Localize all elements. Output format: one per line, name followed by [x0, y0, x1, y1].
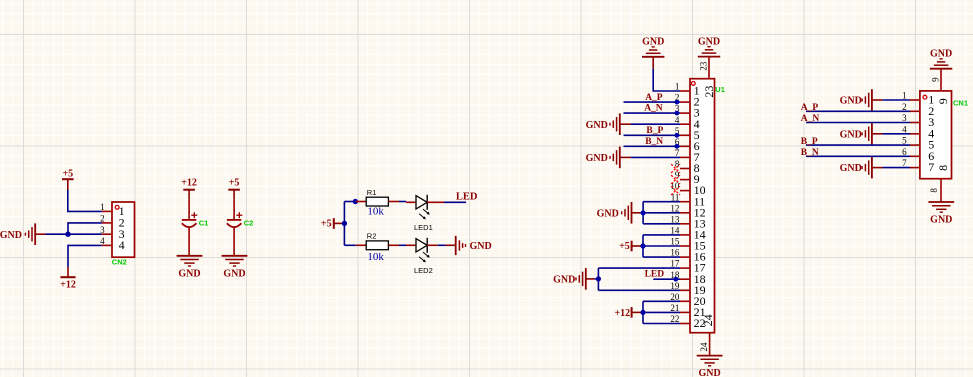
label C2 — [244, 219, 254, 228]
ground GND (CN1 pin4) — [840, 123, 883, 145]
svg-text:24: 24 — [701, 314, 715, 326]
svg-text:+5: +5 — [321, 219, 332, 230]
ground GND (C1) — [177, 256, 203, 279]
ground GND (U1 pin7) — [586, 147, 631, 169]
wire +12 group vertical — [642, 301, 644, 323]
CN1 pin 4 number (outside) — [902, 124, 907, 134]
CN1 pin 9 number (outside) — [930, 77, 940, 82]
U1 pin 19 stub — [680, 289, 690, 291]
svg-text:7: 7 — [675, 148, 680, 158]
U1 pin 17 number (inside) — [694, 261, 706, 275]
CN1 pin 7 stub — [910, 167, 920, 169]
svg-text:20: 20 — [670, 292, 680, 302]
value 10k (R1) — [367, 206, 384, 218]
U1 pin 18 stub — [680, 278, 690, 280]
CN1 pin 1 number (outside) — [902, 91, 907, 101]
U1 pin 1 stub — [680, 90, 690, 92]
U1 pin 4 number (inside) — [694, 117, 700, 131]
wire U1 pin 14 — [643, 234, 680, 236]
U1 pin 18 number (outside) — [670, 270, 680, 280]
U1 pin 13 number (outside) — [670, 214, 680, 224]
wire GND to U1 pin 1 — [653, 69, 680, 91]
wire LED2 to GND — [438, 244, 446, 246]
wire GND stem — [35, 233, 45, 235]
capacitor C1 — [182, 200, 198, 256]
U1 pin 12 stub — [680, 212, 690, 214]
U1 pin 7 stub — [680, 156, 690, 158]
svg-text:GND: GND — [586, 120, 608, 131]
U1 pin 8 number (inside) — [694, 161, 700, 175]
svg-text:A_P: A_P — [801, 103, 819, 113]
wire U1 pin 12 — [640, 212, 680, 214]
label CN2 — [112, 258, 127, 267]
svg-text:GND: GND — [470, 241, 492, 252]
svg-text:B_N: B_N — [801, 148, 819, 158]
net label B_N (CN1) — [801, 148, 819, 158]
U1 pin 15 stub — [680, 245, 690, 247]
svg-text:GND: GND — [840, 163, 862, 174]
svg-text:4: 4 — [902, 124, 907, 134]
U1 pin 9 stub — [680, 179, 690, 181]
ground GND (CN1 top) — [930, 48, 952, 68]
CN2 pin 3 number (outside) — [100, 225, 105, 235]
U1 pin 11 number (inside) — [694, 194, 706, 208]
svg-text:9: 9 — [936, 98, 950, 104]
value 10k (R2) — [367, 251, 384, 263]
svg-text:1: 1 — [902, 91, 907, 101]
svg-text:LED: LED — [645, 270, 665, 280]
wire R1 to LED — [399, 201, 406, 203]
U1 pin 13 stub — [680, 223, 690, 225]
U1 pin 12 number (outside) — [670, 203, 679, 213]
svg-text:GND: GND — [223, 268, 245, 279]
U1 pin 1 number (outside) — [675, 82, 680, 92]
svg-text:+5: +5 — [229, 177, 240, 188]
svg-text:+12: +12 — [181, 177, 197, 188]
capacitor C2 — [227, 200, 243, 256]
U1 pin 10 stub — [680, 190, 690, 192]
power +5 (CN2 pin1) — [62, 168, 74, 190]
wire GND to CN1 pin 7 — [883, 167, 910, 169]
wire B_N (U1 pin6) — [624, 145, 681, 147]
svg-text:+5: +5 — [619, 241, 630, 252]
wire GND vertical (pins 17/19) — [597, 268, 599, 290]
wire U1 pin 17 — [598, 267, 680, 269]
U1 pin 7 number (outside) — [675, 148, 680, 158]
U1 pin 5 stub — [680, 134, 690, 136]
CN1 pin 7 number (outside) — [902, 158, 907, 168]
svg-text:4: 4 — [119, 238, 125, 252]
wire U1 pin 15 — [643, 245, 680, 247]
U1 pin 21 stub — [680, 311, 690, 313]
CN2 pin 2 number (outside) — [100, 214, 105, 224]
power +12 (CN2 pin4) — [60, 267, 76, 291]
power +5 (C2) — [228, 177, 240, 200]
svg-text:15: 15 — [670, 237, 680, 247]
wire U1 pin 13 — [643, 223, 680, 225]
label R2 — [367, 232, 377, 241]
U1 pin 19 number (inside) — [694, 283, 706, 297]
U1 pin 6 number (inside) — [694, 139, 700, 153]
CN1 pin 4 number (inside) — [928, 126, 934, 140]
wire A_P (U1 pin2) — [624, 101, 681, 103]
power +5 (U1 pin15) — [619, 241, 643, 252]
wire B_P (U1 pin5) — [624, 134, 681, 136]
wire B_N (CN1) — [806, 155, 910, 157]
net label B_P (U1) — [646, 126, 663, 136]
U1 pin 9 number (inside) — [694, 172, 700, 186]
diode LED1 — [416, 195, 427, 210]
wire U1 pin 19 — [598, 289, 680, 291]
svg-text:GND: GND — [178, 268, 200, 279]
wire U1 pin 21 — [643, 311, 680, 313]
wire GND stub — [594, 278, 598, 280]
svg-text:LED1: LED1 — [414, 223, 433, 232]
U1 pin 17 number (outside) — [670, 259, 680, 269]
connector CN1 body — [920, 91, 952, 179]
CN1 pin 7 number (inside) — [928, 160, 934, 174]
svg-text:GND: GND — [0, 230, 22, 241]
net label LED (U1) — [645, 270, 665, 280]
CN1 pin 8 number (outside) — [929, 188, 939, 193]
CN1 pin 4 stub — [910, 133, 920, 135]
U1 pin 16 number (outside) — [670, 248, 680, 258]
svg-text:3: 3 — [902, 113, 907, 123]
connector CN2 body — [112, 202, 135, 257]
net label B_P (CN1) — [801, 137, 818, 147]
CN2 pin 2 number (inside) — [119, 216, 125, 230]
svg-text:A_P: A_P — [645, 93, 663, 103]
U1 pin 8 stub — [680, 168, 690, 170]
CN2 pin 4 number (inside) — [119, 238, 125, 252]
svg-text:CN2: CN2 — [112, 258, 127, 267]
svg-text:23: 23 — [698, 61, 708, 71]
U1 pin 2 number (outside) — [675, 93, 680, 103]
svg-text:1: 1 — [100, 202, 105, 212]
svg-text:+12: +12 — [60, 280, 76, 291]
CN1 pin 2 number (outside) — [902, 102, 907, 112]
U1 pin 6 stub — [680, 145, 690, 147]
svg-text:GND: GND — [930, 215, 952, 226]
diode LED2 — [416, 238, 427, 253]
wire GND group vertical — [642, 202, 644, 224]
ground GND (U1 pin1) — [642, 37, 664, 69]
ground GND (U1 pin18 net) — [553, 268, 594, 290]
svg-text:10k: 10k — [367, 206, 384, 218]
U1 pin 3 number (outside) — [675, 104, 680, 114]
svg-text:+5: +5 — [62, 168, 73, 179]
CN1 pin 6 number (outside) — [902, 147, 907, 157]
ground GND (U1 pin24) — [697, 356, 723, 377]
wire CN2 pin 4 to +12 — [68, 245, 102, 267]
label U1 — [715, 85, 725, 94]
wire A_N (CN1) — [806, 122, 910, 124]
svg-text:14: 14 — [670, 226, 680, 236]
net label B_N (U1) — [645, 137, 663, 147]
diode LED2 anode pin — [406, 244, 416, 246]
CN1 pin 8 stub — [940, 179, 942, 202]
LED2 arrows — [419, 252, 430, 262]
svg-text:A_N: A_N — [801, 114, 820, 124]
net label A_P (CN1) — [801, 103, 819, 113]
CN1 pin 9 number (inside) — [936, 98, 950, 104]
CN2 pin 3 number (inside) — [119, 227, 125, 241]
U1 pin 16 stub — [680, 256, 690, 258]
CN1 pin 5 stub — [910, 144, 920, 146]
resistor R1 — [366, 197, 388, 206]
svg-text:C2: C2 — [244, 219, 254, 228]
wire LED (U1 pin18) — [653, 278, 680, 280]
wire +5 group vertical — [642, 235, 644, 257]
wire GND to CN1 pin 1 — [883, 99, 910, 101]
label CN1 — [953, 99, 968, 108]
no-connect marker U1 pin 8 — [671, 164, 680, 173]
ground GND (U1 pin4) — [586, 113, 631, 135]
CN2 pin 1 number (inside) — [119, 204, 125, 218]
CN1 pin 9 stub — [940, 69, 942, 91]
svg-text:GND: GND — [553, 275, 575, 286]
wire R2 to LED — [399, 244, 406, 246]
U1 pin 20 number (inside) — [694, 294, 706, 308]
wire B_P (CN1) — [806, 144, 910, 146]
power +12 (U1 pin21) — [614, 307, 643, 319]
svg-text:GND: GND — [930, 48, 952, 59]
U1 pin 6 number (outside) — [675, 137, 680, 147]
wire CN2 pin 2 to GND net — [68, 223, 102, 234]
net label A_P (U1) — [645, 93, 663, 103]
svg-text:+12: +12 — [614, 308, 630, 319]
junction (+5 node) — [342, 221, 347, 226]
junction (pin5) — [675, 133, 680, 138]
U1 pin 14 number (outside) — [670, 226, 680, 236]
svg-text:CN1: CN1 — [953, 99, 968, 108]
U1 pin 13 number (inside) — [694, 216, 706, 230]
U1 pin 10 number (outside) — [670, 181, 680, 191]
diode LED1 anode pin — [406, 201, 416, 203]
resistor R2 pin 2 — [388, 244, 399, 246]
svg-text:21: 21 — [670, 303, 679, 313]
U1 pin 5 number (outside) — [675, 126, 680, 136]
CN2 pin 2 stub — [102, 222, 112, 224]
CN2 pin 3 stub — [102, 233, 112, 235]
U1 pin 9 number (outside) — [675, 170, 680, 180]
power +12 (C1) — [181, 177, 197, 200]
svg-text:13: 13 — [670, 214, 680, 224]
CN2 pin 1 stub — [102, 210, 112, 212]
label R1 — [367, 188, 377, 197]
ground GND (C2) — [222, 256, 248, 279]
svg-text:B_P: B_P — [801, 137, 818, 147]
connector U1 body — [690, 79, 715, 333]
U1 pin 24 number (inside) — [701, 314, 715, 326]
U1 pin 11 number (outside) — [671, 192, 680, 202]
U1 pin 5 number (inside) — [694, 128, 700, 142]
junction (pin21 +12) — [640, 310, 645, 315]
CN1 pin 5 number (outside) — [902, 136, 907, 146]
CN1 pin 3 number (outside) — [902, 113, 907, 123]
wire +5 to CN2 pin 1 — [68, 190, 102, 211]
CN1 pin 6 number (inside) — [928, 149, 934, 163]
svg-text:5: 5 — [902, 136, 907, 146]
U1 pin 3 number (inside) — [694, 106, 700, 120]
U1 pin 22 number (outside) — [670, 314, 679, 324]
svg-text:22: 22 — [670, 314, 679, 324]
label C1 — [199, 219, 209, 228]
U1 pin 14 number (inside) — [694, 228, 706, 242]
svg-text:9: 9 — [930, 77, 940, 82]
svg-text:LED: LED — [456, 192, 478, 203]
net label A_N (U1) — [644, 104, 663, 114]
CN1 pin 5 number (inside) — [928, 138, 934, 152]
svg-text:24: 24 — [699, 342, 709, 352]
wire LED net — [444, 201, 466, 203]
ground GND (U1 pin23) — [698, 36, 720, 56]
resistor R2 — [366, 241, 388, 250]
svg-text:2: 2 — [100, 214, 105, 224]
wire GND to U1 pin 4 — [631, 123, 680, 125]
U1 pin 4 number (outside) — [675, 115, 680, 125]
svg-text:B_N: B_N — [645, 137, 663, 147]
U1 pin 24 stub — [709, 333, 711, 356]
junction (pin3) — [675, 111, 680, 116]
svg-text:8: 8 — [929, 188, 939, 193]
ground GND (CN1 pin7) — [840, 157, 883, 179]
U1 pin 8 number (outside) — [675, 159, 680, 169]
no-connect marker U1 pin 10 — [671, 186, 680, 195]
resistor R2 pin 1 — [356, 244, 366, 246]
CN2 pin 4 number (outside) — [100, 236, 105, 246]
junction (pin2) — [675, 100, 680, 105]
junction (pin6) — [675, 144, 680, 149]
wire GND to CN2 pin 3 — [46, 233, 102, 235]
CN2 pin 4 stub — [102, 244, 112, 246]
label LED2 — [414, 266, 433, 275]
label LED1 — [414, 223, 433, 232]
U1 pin 23 number (outside) — [698, 61, 708, 71]
net label LED — [456, 192, 478, 203]
U1 pin 19 number (outside) — [670, 281, 680, 291]
ground GND (CN1 bottom) — [928, 202, 954, 226]
U1 pin 24 number (outside) — [699, 342, 709, 352]
junction (pin15 +5) — [640, 243, 645, 248]
U1 pin 15 number (outside) — [670, 237, 680, 247]
svg-text:R1: R1 — [367, 188, 377, 197]
junction (pin12 GND) — [641, 210, 646, 215]
svg-text:19: 19 — [670, 281, 680, 291]
CN1 pin 8 number (inside) — [936, 165, 950, 171]
wire GND to CN1 pin 4 — [883, 133, 910, 135]
svg-text:16: 16 — [670, 248, 680, 258]
U1 pin 11 stub — [680, 201, 690, 203]
U1 pin 10 number (inside) — [694, 183, 706, 197]
diode LED1 cathode pin — [427, 201, 444, 203]
CN1 pin 1 stub — [910, 99, 920, 101]
U1 pin 23 number (inside) — [702, 86, 716, 98]
wire U1 pin 11 — [643, 201, 680, 203]
svg-text:3: 3 — [100, 225, 105, 235]
wire GND to U1 pin 7 — [631, 156, 680, 158]
svg-text:8: 8 — [936, 165, 950, 171]
U1 pin 14 stub — [680, 234, 690, 236]
wire U1 pin 22 — [643, 323, 680, 325]
U1 pin 2 number (inside) — [694, 95, 700, 109]
U1 pin 16 number (inside) — [694, 250, 706, 264]
svg-text:4: 4 — [100, 236, 105, 246]
U1 pin 20 number (outside) — [670, 292, 680, 302]
wire U1 pin 20 — [643, 300, 680, 302]
resistor R1 pin 1 — [356, 201, 366, 203]
svg-text:GND: GND — [840, 96, 862, 107]
svg-text:GND: GND — [597, 208, 619, 219]
CN1 pin 6 stub — [910, 155, 920, 157]
svg-text:2: 2 — [902, 102, 907, 112]
svg-text:6: 6 — [902, 147, 907, 157]
svg-text:7: 7 — [902, 158, 907, 168]
U1 pin 22 stub — [680, 323, 690, 325]
U1 pin 21 number (outside) — [670, 303, 679, 313]
U1 pin 3 stub — [680, 112, 690, 114]
junction (GND vertical) — [596, 276, 601, 281]
U1 pin 2 stub — [680, 101, 690, 103]
U1 pin 1 number (inside) — [694, 84, 700, 98]
svg-text:LED2: LED2 — [414, 266, 433, 275]
wire U1 pin 16 — [643, 256, 680, 258]
junction (pin18) — [673, 277, 678, 282]
ground GND (LED2) — [446, 236, 492, 255]
CN1 pin 2 stub — [910, 110, 920, 112]
svg-text:GND: GND — [698, 368, 720, 377]
wire A_N (U1 pin3) — [624, 112, 681, 114]
svg-text:10k: 10k — [367, 251, 384, 263]
U1 pin 12 number (inside) — [694, 205, 706, 219]
net label A_N (CN1) — [801, 114, 820, 124]
LED1 arrows — [419, 209, 430, 219]
U1 pin 22 number (inside) — [694, 316, 706, 330]
svg-text:B_P: B_P — [646, 126, 663, 136]
ground GND (CN1 pin1) — [840, 89, 883, 111]
wire to R1 — [344, 201, 355, 203]
ground GND (CN2) — [0, 223, 35, 245]
junction (GND/pin2) — [65, 232, 70, 237]
CN1 pin 3 stub — [910, 122, 920, 124]
U1 pin 4 stub — [680, 123, 690, 125]
CN2 pin 1 number (outside) — [100, 202, 105, 212]
svg-text:GND: GND — [840, 129, 862, 140]
CN1 pin 3 number (inside) — [928, 115, 934, 129]
svg-text:GND: GND — [698, 36, 720, 47]
CN1 pin 2 number (inside) — [928, 104, 934, 118]
U1 pin 18 number (inside) — [694, 272, 706, 286]
U1 pin 7 number (inside) — [694, 150, 700, 164]
junction (R1 input) — [353, 199, 358, 204]
wire A_P (CN1) — [806, 110, 910, 112]
U1 pin 15 number (inside) — [694, 239, 706, 253]
diode LED2 cathode pin — [427, 244, 438, 246]
U1 pin 23 stub — [708, 57, 710, 79]
wire +5 vertical — [343, 202, 345, 246]
svg-text:C1: C1 — [199, 219, 209, 228]
ground GND (U1 pin12) — [597, 202, 641, 224]
CN1 pin 1 number (inside) — [928, 93, 934, 107]
svg-text:U1: U1 — [715, 85, 725, 94]
wire to R2 — [344, 244, 355, 246]
U1 pin 17 stub — [680, 267, 690, 269]
no-connect marker U1 pin 9 — [671, 175, 680, 184]
U1 pin 20 stub — [680, 300, 690, 302]
svg-text:7: 7 — [928, 160, 934, 174]
svg-text:17: 17 — [670, 259, 680, 269]
svg-text:12: 12 — [670, 203, 679, 213]
